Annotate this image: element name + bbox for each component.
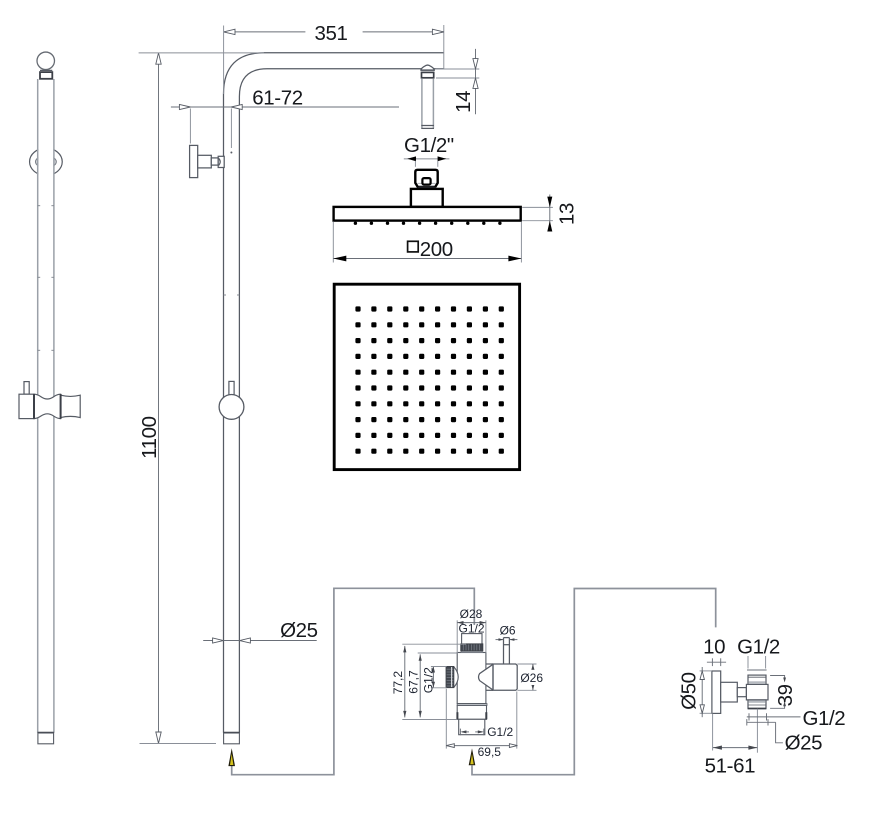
shower head plate side view: [334, 207, 521, 221]
supply route valve to elbow: [472, 589, 716, 775]
svg-text:69,5: 69,5: [478, 745, 502, 759]
dimension 14: [436, 49, 480, 114]
elbow bottom port threaded: [748, 700, 766, 709]
shower head connector dark band: [417, 187, 436, 189]
diverter valve body: [457, 653, 486, 704]
elbow wall plate: [712, 671, 721, 713]
elbow top port threaded: [748, 675, 766, 684]
valve dimension diameter 26: [517, 664, 543, 690]
diverter valve top small pipe: [504, 638, 510, 664]
svg-text:Ø26: Ø26: [520, 671, 543, 685]
elbow dimension G1/2 outlet: [747, 707, 846, 730]
svg-text:51-61: 51-61: [705, 755, 755, 778]
slide bar wall holder ring: [30, 148, 63, 175]
svg-text:61-72: 61-72: [252, 87, 302, 110]
svg-text:10: 10: [703, 635, 725, 658]
elbow body: [746, 684, 768, 700]
column joint tick: [224, 294, 240, 296]
elbow pipe axis: [756, 709, 758, 753]
svg-text:Ø50: Ø50: [677, 672, 700, 710]
wall bracket of column: [190, 145, 225, 177]
shower head side nozzles: [354, 222, 502, 225]
shower head bottom view square: [334, 284, 519, 469]
svg-text:39: 39: [774, 684, 797, 706]
valve dimension G1/2 left: [422, 667, 447, 694]
column slider knob pin: [229, 381, 234, 394]
shower head nut: [411, 189, 443, 207]
dimension G1/2 head connector: [404, 134, 454, 167]
svg-text:G1/2: G1/2: [458, 621, 484, 635]
svg-text:200: 200: [420, 238, 453, 261]
valve dimension 77,2: [391, 644, 466, 719]
shower head ball housing: [415, 170, 437, 187]
svg-text:Ø6: Ø6: [500, 624, 516, 638]
slide bar top bracket: [40, 70, 52, 78]
shower head nozzle grid: [355, 306, 504, 453]
slide bar slider handle: [19, 382, 80, 419]
dimension 1100: [138, 53, 264, 744]
svg-text:1100: 1100: [138, 416, 161, 458]
diverter valve bottom band: [457, 704, 487, 706]
diverter valve left knurled connector: [446, 666, 454, 687]
valve dimension diameter 28: [457, 607, 486, 653]
shower column pipe with top arm: [224, 53, 444, 733]
dimension diameter 25 column: [203, 619, 317, 643]
diverter valve bottom port upper: [457, 705, 486, 719]
elbow dimension 51-61: [705, 714, 758, 778]
svg-text:G1/2: G1/2: [422, 667, 436, 693]
arm end down pipe: [421, 79, 434, 128]
diverter valve right cone: [479, 664, 494, 690]
svg-text:Ø28: Ø28: [460, 607, 483, 621]
arm end dome cap: [421, 65, 434, 70]
flow arrow at valve bottom: [469, 748, 476, 765]
slide bar bottom cap: [38, 733, 54, 744]
supply route column to valve: [232, 588, 475, 774]
arm end cap line: [443, 25, 445, 69]
diverter valve left dome: [454, 667, 458, 688]
dimension 13: [522, 195, 578, 232]
dimension square 200: [333, 222, 521, 263]
valve dimension G1/2 bottom: [460, 725, 513, 739]
svg-text:G1/2: G1/2: [737, 635, 780, 658]
elbow dimension 10: [703, 635, 726, 666]
column bottom cap: [223, 733, 239, 744]
flow arrow at column bottom: [228, 748, 235, 766]
diverter valve bottom port lower: [459, 719, 485, 734]
svg-text:351: 351: [314, 22, 347, 45]
slide bar joint ticks: [38, 206, 54, 351]
svg-text:Ø25: Ø25: [785, 731, 823, 754]
arm end nut band: [421, 70, 435, 78]
svg-text:13: 13: [556, 203, 579, 225]
svg-text:77,2: 77,2: [391, 671, 405, 695]
column slider knob: [219, 395, 244, 420]
elbow dimension G1/2 top: [737, 635, 780, 670]
elbow neck: [737, 688, 746, 697]
dimension 351: [224, 22, 444, 94]
elbow dimension 39: [770, 676, 797, 709]
dimension 61-72: [171, 87, 399, 154]
slide bar top cap circle: [37, 52, 55, 70]
valve dimension diameter 6: [496, 624, 518, 641]
slide bar pole: [38, 79, 54, 733]
svg-text:G1/2: G1/2: [487, 725, 513, 739]
svg-text:G1/2": G1/2": [404, 134, 454, 157]
diverter valve right port: [493, 664, 517, 690]
svg-text:14: 14: [452, 91, 475, 113]
valve dimension 67,7: [407, 653, 459, 717]
diverter valve top cap: [461, 634, 483, 653]
svg-text:67,7: 67,7: [407, 670, 421, 694]
elbow dimension diameter 50: [677, 667, 712, 717]
svg-text:G1/2: G1/2: [802, 707, 845, 730]
elbow dimension diameter 25: [747, 719, 822, 754]
svg-text:Ø25: Ø25: [280, 619, 318, 642]
valve dimension 69,5: [446, 689, 517, 759]
elbow arm: [721, 682, 738, 702]
